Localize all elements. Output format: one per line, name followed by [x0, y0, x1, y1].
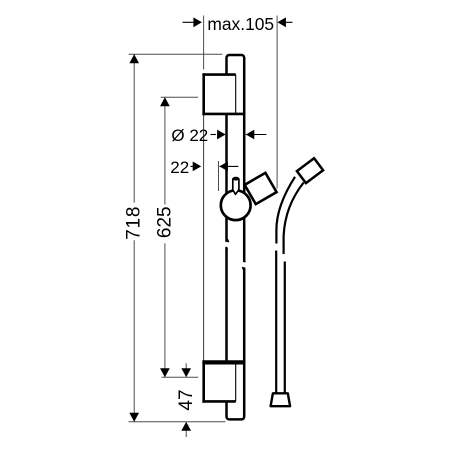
top bracket top edge [202, 73, 235, 76]
bottom bracket top edge (junction across rail) [202, 360, 245, 364]
svg-text:max.105: max.105 [207, 14, 274, 34]
arrowhead diameter 22 right [246, 130, 255, 140]
extension line rail bottom (718/47 bottom) [129, 421, 226, 423]
arrowhead 625 top [160, 97, 170, 106]
rail break left jog [226, 239, 229, 250]
rail break left edge (white gap) [224, 242, 229, 247]
arrow tail diameter 22 left [211, 134, 216, 136]
arrowhead diameter 22 left [217, 130, 226, 140]
rail break right jog [243, 259, 246, 270]
arrowhead 718 top [129, 54, 139, 63]
shower hose right line [284, 183, 304, 255]
dimension line 718 upper [133, 54, 135, 202]
bottom bracket left edge [202, 361, 205, 403]
arrowhead 22 right [219, 162, 228, 172]
extension line bracket top (625 top) [161, 96, 198, 98]
svg-text:22: 22 [170, 158, 189, 177]
dimension line 718 lower [133, 240, 135, 421]
hose end fitting (trapezoid) [271, 393, 291, 406]
top bracket bottom edge (junction across rail) [202, 113, 245, 116]
arrowhead max.105 left [193, 17, 202, 27]
arrowhead max.105 right [277, 17, 286, 27]
hose connector (rotated rect at top) [297, 158, 323, 183]
dimension line 625 upper [164, 97, 166, 204]
shower hose left line [276, 177, 295, 244]
svg-text:718: 718 [124, 206, 145, 240]
bottom bracket thin right edge [235, 362, 237, 401]
arrow tail max.105 right [285, 21, 293, 23]
dimension line 47 lower [185, 430, 187, 437]
arrowhead 625 bottom [160, 368, 170, 377]
arrowhead 47 bottom (points up) [181, 422, 191, 431]
svg-text:47: 47 [176, 389, 197, 410]
extension line wall (max.105 left, upper) [203, 16, 205, 70]
arrow tail 22 right (over rail) [220, 165, 239, 167]
knob top cap [233, 178, 238, 181]
top bracket thin right edge [235, 75, 237, 114]
svg-text:625: 625 [155, 206, 176, 238]
arrowhead 718 bottom [129, 413, 139, 422]
slider body circle [221, 190, 251, 220]
extension line slider left edge (22 right) [218, 161, 220, 191]
bottom wall bracket body [204, 362, 236, 401]
wall bar rail [227, 55, 245, 419]
arrow tail diameter 22 right [246, 134, 266, 136]
extension line handle outer (max.105 right) [276, 16, 278, 189]
svg-text:Ø 22: Ø 22 [171, 126, 208, 145]
extension line rail top (718 top) [129, 53, 223, 55]
top wall bracket body [204, 75, 236, 114]
arrow tail max.105 left [183, 21, 195, 23]
dimension line 625 lower [164, 243, 166, 377]
top bracket left edge [202, 73, 205, 115]
shower hose left line lower [275, 251, 277, 394]
arrowhead 22 left [193, 162, 202, 172]
extension line wall between brackets [203, 115, 205, 362]
arrowhead 47 top (points down) [181, 368, 191, 377]
extension line bracket bottom (625/47) [162, 376, 199, 378]
dimension line 47 upper [185, 363, 187, 369]
arrow tail 22 left [191, 165, 194, 167]
rail break right edge (white gap) [242, 262, 247, 267]
shower holder arm (rotated rect) [245, 173, 277, 204]
bottom bracket bottom edge [202, 400, 235, 403]
release knob on slider [233, 178, 239, 195]
shower hose right line lower [284, 262, 286, 394]
